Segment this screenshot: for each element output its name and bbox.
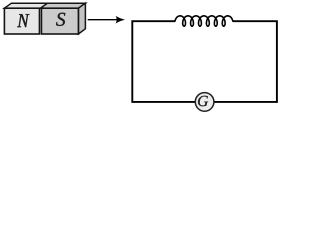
arrowhead xyxy=(116,16,126,24)
magnet S pole front face xyxy=(41,8,78,34)
magnet top face S half xyxy=(41,3,86,8)
circuit wire rectangle xyxy=(132,21,277,102)
label N xyxy=(17,14,29,27)
galvanometer body xyxy=(195,93,214,112)
magnet N pole front face xyxy=(4,8,39,34)
magnet top face N half xyxy=(4,3,47,8)
magnet right side face xyxy=(78,3,85,34)
inductor coil L xyxy=(175,16,233,26)
label S xyxy=(56,13,65,26)
arrow shaft (magnet motion) xyxy=(88,19,118,21)
galvanometer label G xyxy=(198,96,208,106)
